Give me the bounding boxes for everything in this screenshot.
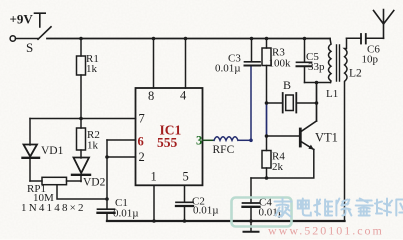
diode VD1 xyxy=(29,119,31,146)
svg-text:1k: 1k xyxy=(87,140,99,152)
svg-text:4: 4 xyxy=(180,89,187,103)
svg-text:+9V: +9V xyxy=(10,12,34,27)
svg-text:8: 8 xyxy=(148,89,154,103)
svg-text:1: 1 xyxy=(151,170,157,184)
svg-text:100k: 100k xyxy=(269,58,292,70)
svg-text:2k: 2k xyxy=(272,161,284,173)
capacitor C3 xyxy=(251,39,253,62)
wire pin4 xyxy=(185,39,187,89)
capacitor C5 xyxy=(304,39,306,63)
svg-text:10p: 10p xyxy=(362,54,379,66)
crystal B xyxy=(267,102,283,104)
resistor R1 xyxy=(80,39,82,57)
svg-text:L1: L1 xyxy=(326,88,338,100)
wire pin7 xyxy=(30,118,136,120)
svg-text:1k: 1k xyxy=(86,63,98,75)
svg-text:0.01µ: 0.01µ xyxy=(215,63,241,75)
wire L2 top to C6 xyxy=(347,37,362,39)
wire to collector xyxy=(316,83,318,122)
svg-text:VD2: VD2 xyxy=(83,177,106,189)
svg-text:555: 555 xyxy=(157,135,178,150)
watermark url xyxy=(268,224,384,238)
svg-text:5: 5 xyxy=(183,170,189,184)
diode VD2 xyxy=(80,150,82,158)
svg-text:VD1: VD1 xyxy=(41,145,64,157)
resistor R2 xyxy=(77,128,86,150)
wire C5 bottom to L1 xyxy=(305,82,331,84)
wire pin2 xyxy=(107,156,136,158)
inductor L1 xyxy=(329,39,332,83)
wire xyxy=(16,38,39,40)
svg-text:6: 6 xyxy=(138,135,144,149)
wire R3 to base node (blue) xyxy=(266,103,268,136)
wire pin5 xyxy=(184,185,186,202)
transistor Q1 VT1 xyxy=(299,129,302,146)
wire pin8 xyxy=(153,39,155,89)
resistor R3 xyxy=(266,39,268,49)
svg-text:www.520101.com: www.520101.com xyxy=(268,224,384,238)
capacitor C6 xyxy=(360,34,362,44)
op-amp U1 IC1 555 box xyxy=(136,88,203,185)
svg-text:B: B xyxy=(283,78,291,92)
node junction dots xyxy=(79,37,318,223)
svg-text:7: 7 xyxy=(139,112,145,126)
wire RP1 tap xyxy=(57,185,107,199)
watermark chinese text xyxy=(275,199,403,217)
inductor L2 xyxy=(345,38,348,221)
switch S terminal circle xyxy=(10,36,15,41)
svg-text:1N4148×2: 1N4148×2 xyxy=(21,202,86,214)
wire emitter xyxy=(251,150,314,179)
svg-text:0.01µ: 0.01µ xyxy=(113,208,139,220)
switch S fixed contact xyxy=(35,13,46,27)
svg-text:33p: 33p xyxy=(308,61,325,73)
node +9V label xyxy=(10,12,34,27)
svg-text:RFC: RFC xyxy=(213,144,235,156)
capacitor C2 xyxy=(176,201,193,203)
svg-text:2: 2 xyxy=(139,150,145,164)
wire top rail xyxy=(47,38,330,40)
wire bottom rail xyxy=(107,220,345,222)
wire node to C1 xyxy=(106,140,108,209)
capacitor C4 xyxy=(250,178,252,203)
switch S label xyxy=(26,40,33,55)
svg-text:0.01µ: 0.01µ xyxy=(193,205,219,217)
antenna xyxy=(374,10,394,39)
watermark frame xyxy=(232,198,292,227)
svg-text:VT1: VT1 xyxy=(315,131,338,145)
switch S blade xyxy=(38,27,51,40)
wire RFC node to C3 (blue) xyxy=(250,66,252,140)
wire base xyxy=(267,135,300,137)
potentiometer RP1 xyxy=(30,180,42,182)
transformer core xyxy=(337,45,340,81)
svg-text:3: 3 xyxy=(196,134,202,148)
wire pin6 xyxy=(107,139,136,141)
svg-text:S: S xyxy=(26,40,33,55)
wire pin1 xyxy=(153,185,155,221)
inductor RFC xyxy=(214,137,238,141)
svg-text:L2: L2 xyxy=(349,68,362,80)
resistor R4 xyxy=(266,136,268,151)
wire pin3 xyxy=(203,139,215,141)
capacitor C1 xyxy=(98,208,115,210)
